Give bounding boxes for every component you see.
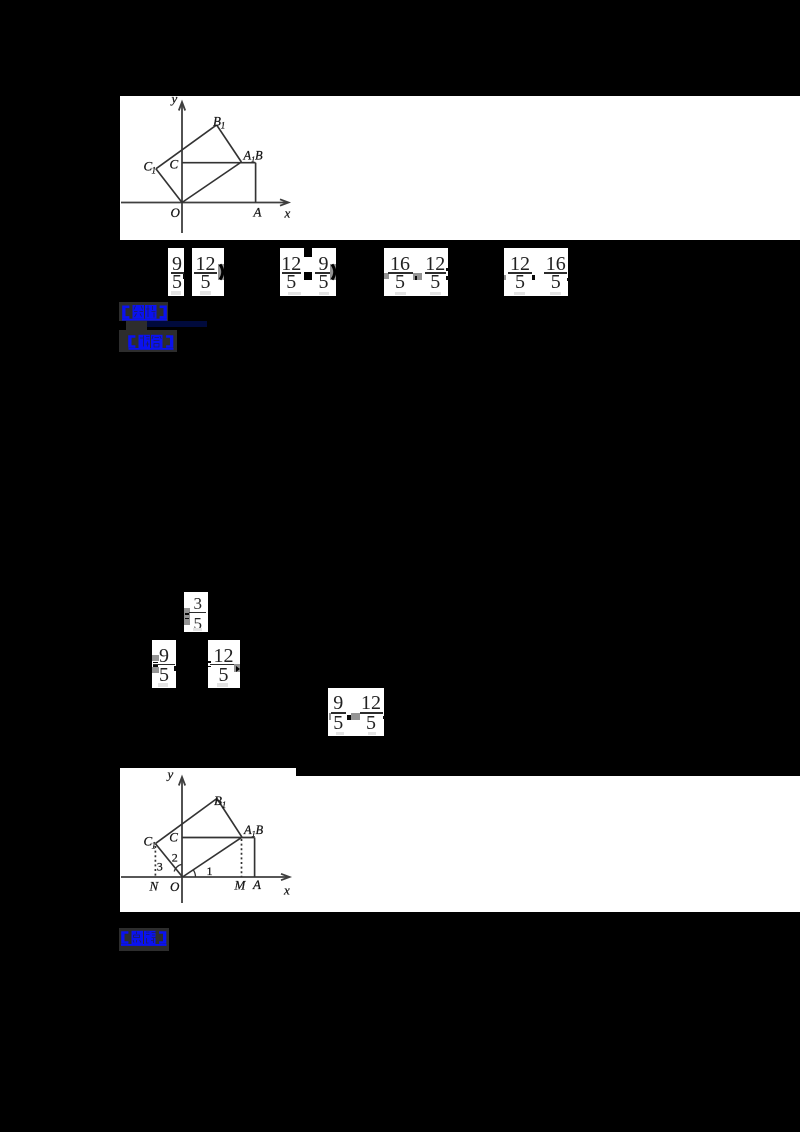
dark underline segment [147, 321, 207, 327]
link 解答 blue text [127, 334, 175, 350]
fraction D2 16/5 digits [536, 254, 576, 274]
black notch above figure box 2 right part [296, 768, 800, 776]
answer row D: fractions 12/5, 16/5 [504, 248, 568, 296]
fraction D1 12/5 digits [500, 254, 540, 274]
comma after 9/5 [183, 274, 185, 279]
y axis [181, 104, 183, 233]
paren mark after D [567, 278, 569, 282]
answer row A: fraction 9/5 [168, 248, 184, 296]
figure 1 coordinate drawing [120, 96, 800, 240]
y axis [181, 779, 183, 903]
svg-text:1: 1 [221, 121, 226, 131]
rotated rectangle A1-B1 [217, 125, 242, 162]
paren before C [384, 273, 389, 279]
rotated rectangle O-A1 [182, 162, 241, 203]
rotated rectangle C1-O [156, 169, 182, 203]
paren before D [504, 275, 506, 280]
answer row C: fractions 16/5, 12/5 [384, 248, 448, 296]
fraction B1 12/5 digits [271, 254, 311, 274]
rotated rectangle O-A1 [183, 837, 243, 877]
svg-text:1: 1 [152, 841, 157, 851]
svg-text:x: x [283, 883, 290, 898]
svg-text:B: B [213, 114, 221, 129]
paren after A [218, 264, 223, 280]
x axis arrowhead [280, 199, 289, 205]
x axis [121, 202, 287, 204]
rectangle side AB [255, 163, 257, 203]
svg-text:y: y [170, 96, 178, 106]
svg-text:B: B [256, 823, 264, 837]
=12/5 contents [208, 661, 211, 663]
svg-text:1: 1 [207, 864, 213, 878]
fraction A1 9/5 digits [157, 254, 197, 274]
dotted line A1-M [241, 839, 243, 877]
svg-text:C: C [169, 830, 178, 845]
rectangle side CB [182, 162, 256, 164]
fraction C1 16/5 digits [380, 254, 420, 274]
svg-text:1: 1 [222, 800, 227, 810]
x axis arrowhead [281, 874, 290, 880]
angle 1 arc [193, 870, 195, 877]
svg-text:2: 2 [172, 851, 178, 865]
fraction B2 9/5 digits [304, 254, 344, 274]
fraction C2 12/5 digits [415, 254, 455, 274]
rectangle side AB [254, 838, 256, 878]
paren marks after C [446, 268, 449, 271]
black notches in B [304, 248, 312, 257]
inline fraction =9/5 [152, 640, 176, 688]
fraction A2 12/5 digits [186, 254, 226, 274]
gray highlight fragment below link1 [126, 321, 147, 331]
rotated rectangle B1-C1 [156, 125, 217, 169]
pair (9/5, 12/5) contents [329, 713, 332, 720]
comma after 9/5 [174, 666, 177, 671]
answer row A: fraction 12/5 [192, 248, 224, 296]
svg-text:x: x [284, 206, 291, 221]
figure 2 coordinate drawing [120, 768, 800, 912]
svg-text:A: A [253, 205, 262, 220]
angle 2 arc [174, 864, 182, 871]
svg-text:O: O [171, 205, 181, 220]
rotated rectangle C1-O [155, 844, 182, 877]
svg-text:3: 3 [157, 860, 163, 874]
svg-text:M: M [234, 878, 247, 893]
x axis [121, 876, 288, 878]
y axis arrowhead [179, 777, 185, 786]
inline pair (9/5, 12/5) [328, 688, 384, 736]
comma in C [413, 273, 422, 280]
svg-text:N: N [149, 879, 160, 894]
rectangle side CB [182, 837, 255, 839]
comma in D [532, 275, 535, 280]
y axis arrowhead [179, 102, 185, 111]
svg-text:y: y [166, 768, 174, 782]
svg-text:1: 1 [152, 166, 157, 176]
=3/5 contents [184, 608, 190, 625]
svg-text:C: C [170, 157, 179, 172]
svg-text:B: B [214, 793, 222, 808]
figure box 2 (bottom white strip) [120, 768, 800, 912]
dotted line C1-N [154, 846, 156, 877]
link 分析 blue text [121, 304, 168, 321]
svg-text:O: O [170, 879, 180, 894]
paren after B [330, 264, 336, 280]
inline fraction =3/5 [184, 592, 208, 632]
rotated rectangle A1-B1 [217, 799, 242, 838]
link 分析 highlight [119, 302, 168, 321]
link 点评 blue text [120, 930, 168, 946]
rotated rectangle B1-C1 [155, 799, 217, 844]
svg-text:A: A [252, 877, 261, 892]
inline fraction =12/5 [208, 640, 240, 688]
link 点评 highlight [119, 928, 169, 951]
answer row B: fractions 12/5, 9/5 [280, 248, 336, 296]
=9/5 contents [152, 655, 159, 661]
figure box 1 (top white strip) [120, 96, 800, 240]
link 解答 highlight [119, 330, 177, 352]
svg-text:B: B [255, 149, 263, 163]
